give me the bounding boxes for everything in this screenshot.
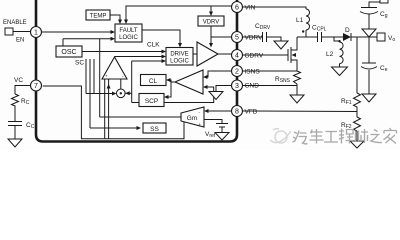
svg-text:GDRV: GDRV (245, 53, 264, 60)
svg-text:SS: SS (150, 126, 159, 133)
svg-text:6: 6 (235, 5, 239, 12)
svg-text:4: 4 (235, 53, 239, 60)
svg-text:LOGIC: LOGIC (170, 59, 189, 65)
svg-text:VDRV: VDRV (245, 35, 264, 42)
svg-text:Cg: Cg (380, 11, 388, 19)
svg-text:DRIVE: DRIVE (170, 52, 188, 58)
svg-text:CLK: CLK (147, 42, 160, 49)
svg-text:FAULT: FAULT (119, 28, 138, 34)
svg-text:3: 3 (235, 83, 239, 90)
svg-text:L2: L2 (326, 51, 334, 58)
svg-text:RF2: RF2 (341, 122, 352, 130)
svg-text:5: 5 (235, 35, 239, 42)
svg-text:SCP: SCP (145, 98, 158, 105)
svg-text:7: 7 (34, 83, 38, 90)
svg-text:VC: VC (14, 77, 23, 84)
svg-text:EN: EN (16, 38, 24, 44)
svg-text:VDRV: VDRV (203, 20, 220, 26)
svg-text:CL: CL (149, 78, 158, 85)
svg-text:TEMP: TEMP (90, 14, 107, 20)
svg-text:Vo: Vo (388, 35, 395, 43)
svg-text:RC: RC (21, 98, 30, 106)
svg-text:CDRV: CDRV (255, 23, 271, 31)
svg-text:GND: GND (245, 83, 260, 90)
svg-text:Ce: Ce (380, 65, 388, 73)
svg-text:ENABLE: ENABLE (3, 20, 27, 26)
svg-text:+: + (105, 74, 108, 79)
svg-text:L1: L1 (296, 17, 304, 24)
svg-text:SC: SC (75, 60, 84, 67)
svg-text:+: + (199, 122, 202, 127)
svg-text:CCPL: CCPL (312, 25, 327, 33)
svg-text:Gm: Gm (187, 115, 197, 122)
svg-text:Vref: Vref (205, 131, 216, 139)
svg-text:ISNS: ISNS (245, 69, 261, 76)
svg-text:D: D (345, 27, 350, 34)
svg-text:VFB: VFB (245, 109, 258, 116)
svg-text:8: 8 (235, 109, 239, 116)
svg-text:VIN: VIN (245, 5, 256, 12)
svg-text:RF1: RF1 (341, 98, 352, 106)
svg-text:RSNS: RSNS (275, 76, 291, 84)
svg-text:CC: CC (26, 122, 35, 130)
svg-text:1: 1 (34, 30, 38, 37)
svg-text:2: 2 (235, 69, 239, 76)
svg-text:OSC: OSC (61, 49, 76, 56)
svg-text:LOGIC: LOGIC (119, 35, 138, 41)
